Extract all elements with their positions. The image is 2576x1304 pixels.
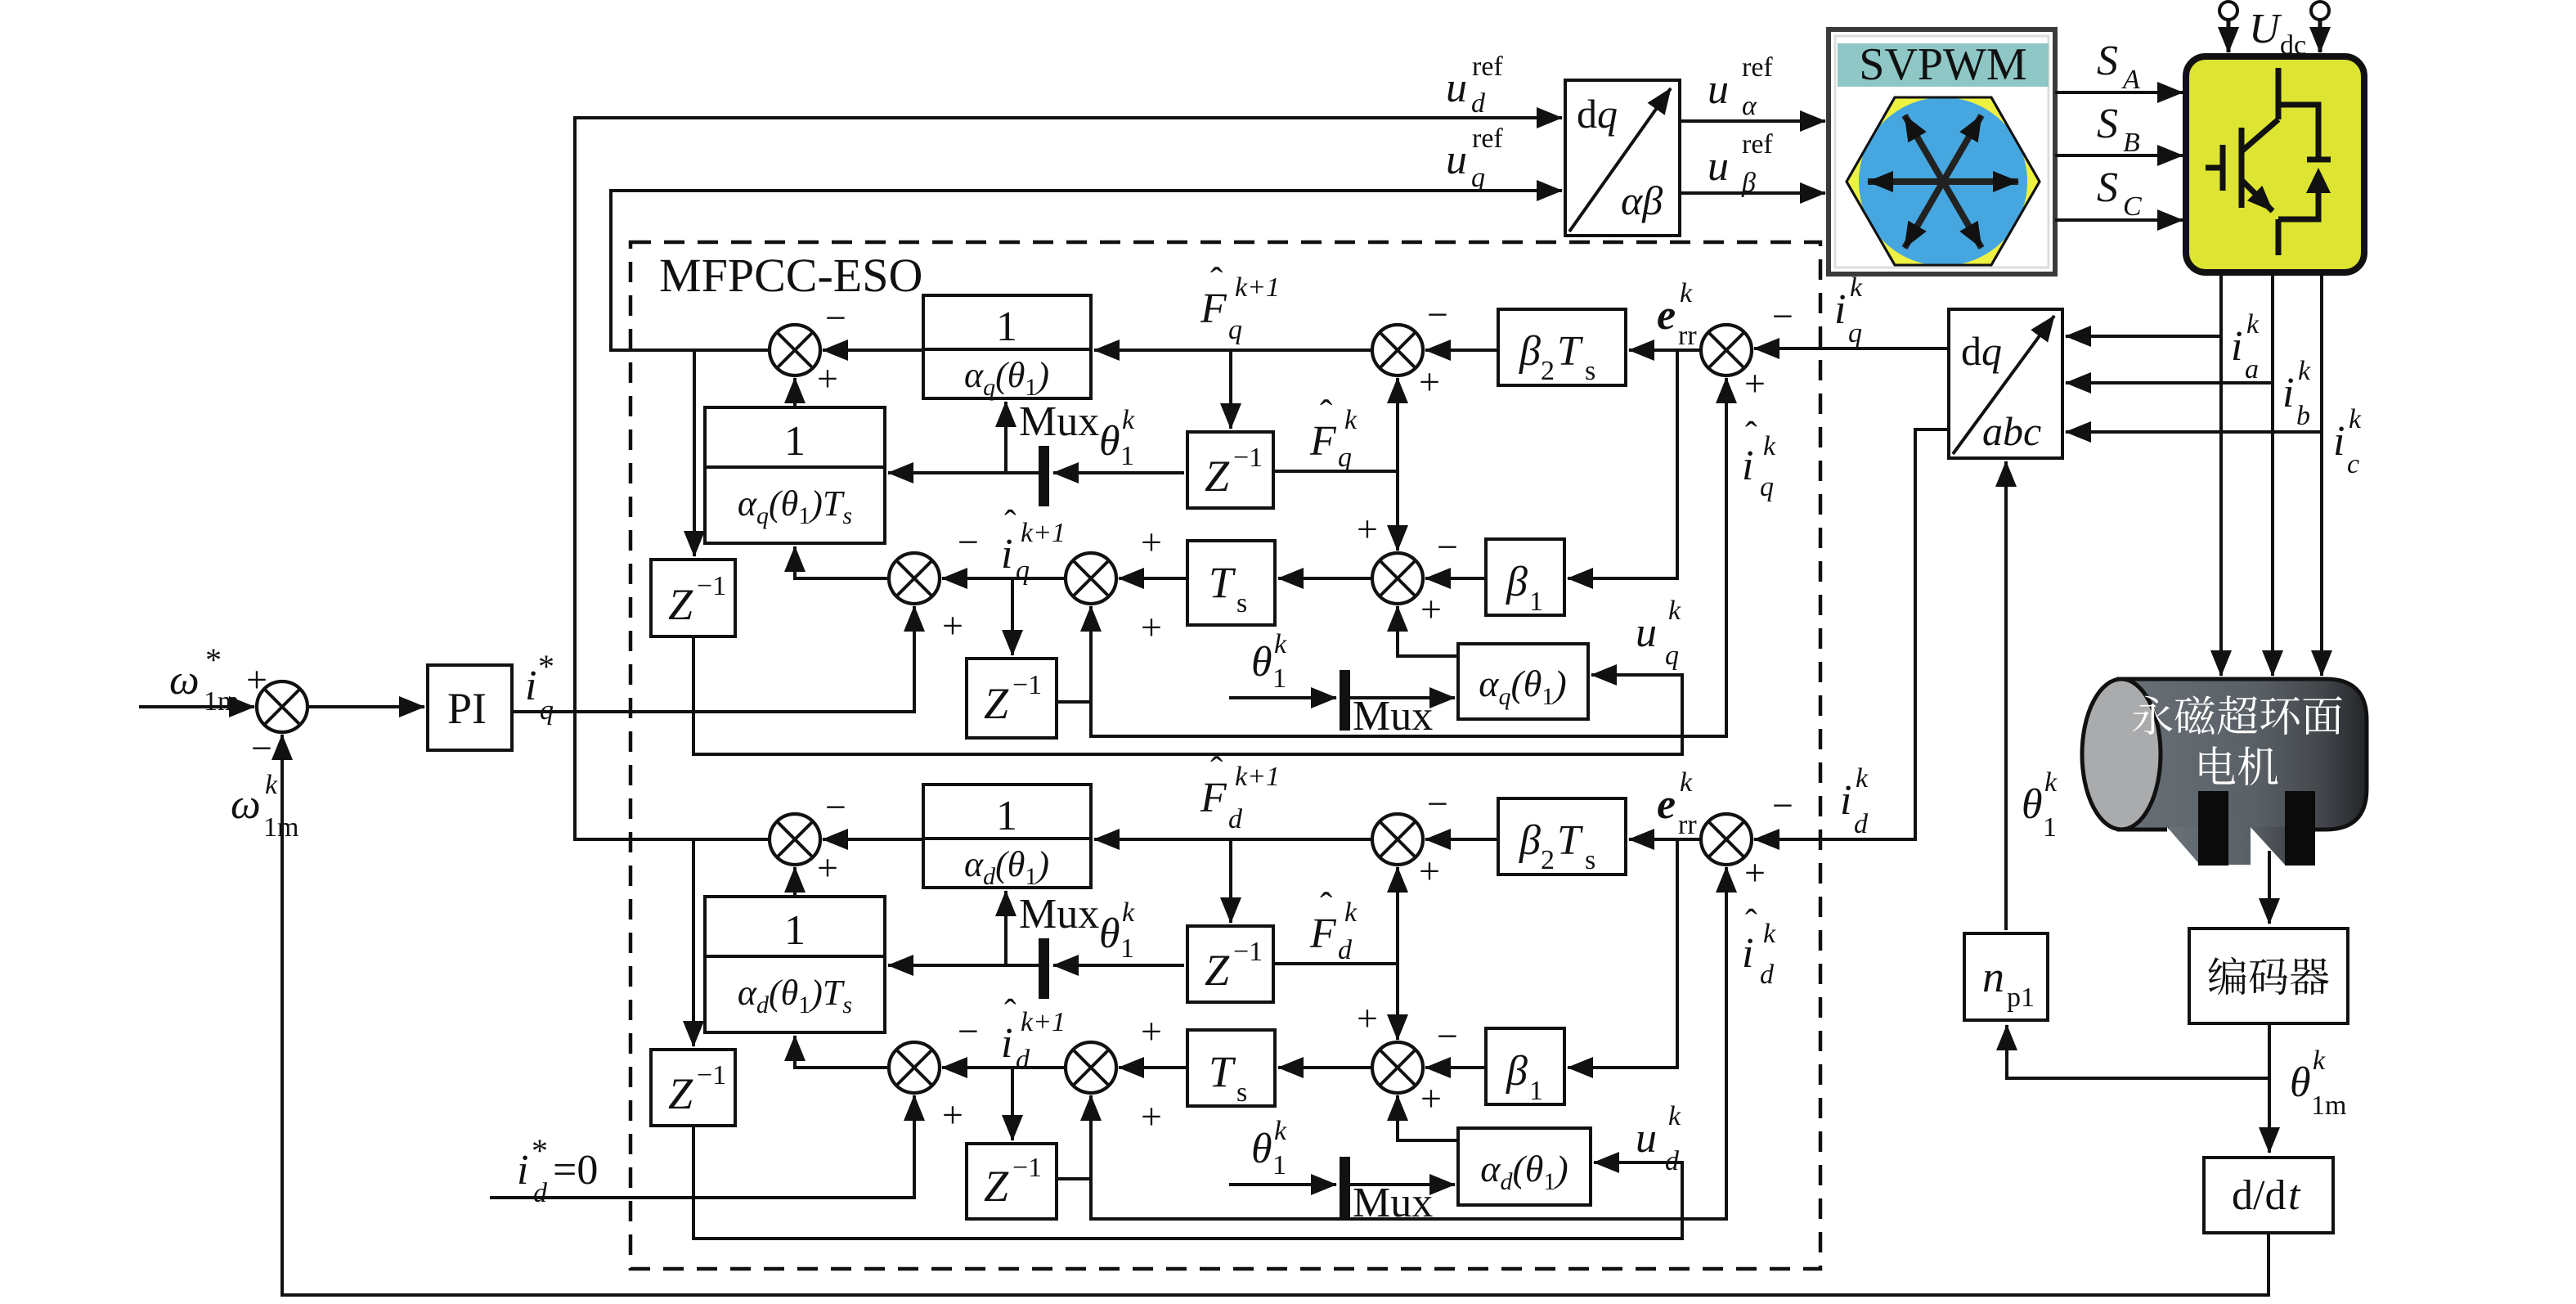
- svg-text:k: k: [2298, 356, 2311, 386]
- svg-text:+: +: [942, 1094, 963, 1135]
- svg-text:u: u: [1446, 65, 1467, 111]
- svg-text:αd(θ1): αd(θ1): [964, 844, 1049, 890]
- label encoder chinese: [2208, 957, 2328, 996]
- wire u_alpha ref: [1680, 119, 1825, 123]
- svg-text:b: b: [2296, 401, 2310, 431]
- wire i_c sense: [2066, 430, 2322, 434]
- wire iq* from PI to S5 bottom: [512, 606, 914, 712]
- label iq hat k right: [1742, 415, 1776, 502]
- svg-text:i: i: [517, 1147, 528, 1194]
- label omega^k_1m: [231, 770, 298, 843]
- svg-text:−: −: [1772, 785, 1793, 826]
- svg-text:2: 2: [1541, 845, 1555, 875]
- svg-text:−1: −1: [697, 1060, 726, 1090]
- block encoder: [2189, 929, 2348, 1023]
- svg-text:k: k: [1850, 272, 1863, 303]
- svg-text:−: −: [1772, 295, 1793, 337]
- svg-text:T: T: [1557, 328, 1583, 375]
- svg-text:rr: rr: [1678, 321, 1697, 351]
- label i_c^k: [2333, 404, 2362, 479]
- label e_rr^k d: [1657, 767, 1697, 840]
- label i_q^k top: [1834, 272, 1863, 348]
- label u_d^k: [1636, 1101, 1681, 1176]
- svg-text:n: n: [1982, 952, 2004, 1001]
- wire mux q upper branch up to 1/alpha_q: [1004, 402, 1008, 473]
- svg-text:θ: θ: [1099, 418, 1120, 465]
- svg-text:+: +: [1419, 850, 1440, 892]
- svg-text:Mux: Mux: [1353, 693, 1433, 740]
- svg-text:k: k: [1856, 763, 1869, 794]
- svg-text:i: i: [1001, 1020, 1012, 1067]
- svg-text:ref: ref: [1472, 52, 1503, 82]
- label i_b^k: [2282, 356, 2311, 431]
- block alpha_d(theta1): [1458, 1128, 1591, 1205]
- wire vertical down into S3 q top: [1396, 471, 1399, 551]
- label Mux q upper: [1019, 398, 1099, 445]
- sum junction S3 d: [1372, 1042, 1423, 1093]
- svg-text:F: F: [1200, 286, 1227, 332]
- sum junction S6 d: [770, 814, 820, 865]
- svg-text:A: A: [2121, 65, 2140, 95]
- svg-text:i: i: [2231, 323, 2242, 370]
- SVPWM title banner: [1838, 43, 2049, 87]
- svg-text:s: s: [1236, 588, 1247, 618]
- block Ts d: [1187, 1030, 1275, 1106]
- svg-text:PI: PI: [447, 684, 487, 733]
- label motor chinese line2: [2200, 746, 2278, 785]
- svg-text:1: 1: [1120, 441, 1134, 471]
- svg-text:αβ: αβ: [1621, 178, 1663, 223]
- svg-text:k: k: [2044, 767, 2058, 798]
- svg-text:S: S: [2097, 164, 2118, 211]
- svg-text:k: k: [1763, 431, 1776, 461]
- svg-text:k: k: [1680, 278, 1693, 308]
- label Z-1 d bottom text: [984, 1153, 1042, 1211]
- SVPWM module frame: [1829, 29, 2055, 274]
- svg-text:ref: ref: [1742, 52, 1773, 83]
- SVPWM blue circle: [1859, 97, 2027, 266]
- label i_d^k: [1840, 763, 1869, 839]
- svg-text:e: e: [1657, 781, 1676, 828]
- svg-text:c: c: [2347, 449, 2359, 479]
- svg-text:αq(θ1)Ts: αq(θ1)Ts: [738, 483, 852, 529]
- wire S5 d out to alphaTs d bottom: [795, 1036, 890, 1068]
- wire mux d upper branch up to 1/alpha_d: [1004, 891, 1008, 965]
- label d/dt text: [2232, 1172, 2301, 1219]
- label i_d*=0: [517, 1132, 598, 1208]
- svg-text:−1: −1: [1012, 670, 1042, 700]
- block Ts q: [1187, 541, 1275, 625]
- svg-text:−: −: [1437, 526, 1458, 568]
- wire theta1 into mux q upper: [1053, 471, 1184, 474]
- wire phase a to motor: [2219, 272, 2223, 676]
- svg-text:k: k: [2313, 1045, 2326, 1076]
- svg-text:MFPCC-ESO: MFPCC-ESO: [659, 249, 922, 302]
- svg-text:s: s: [1585, 845, 1595, 875]
- wire ud ref feedback: [575, 118, 1562, 839]
- svg-text:i: i: [1834, 286, 1846, 333]
- svg-text:β: β: [1506, 1048, 1528, 1095]
- svg-text:*: *: [532, 1132, 548, 1169]
- svg-text:k: k: [1122, 897, 1135, 928]
- block beta1 d: [1486, 1028, 1564, 1104]
- motor body cylinder: [2082, 679, 2367, 865]
- svg-text:+: +: [1141, 1010, 1162, 1052]
- svg-text:αd(θ1)Ts: αd(θ1)Ts: [738, 973, 852, 1018]
- svg-text:q: q: [1760, 472, 1774, 502]
- label S_A: [2097, 38, 2140, 95]
- svg-text:+: +: [1141, 1095, 1162, 1137]
- svg-text:θ: θ: [1251, 639, 1272, 686]
- label u_beta ref: [1708, 129, 1773, 198]
- wire alpha_qTs out up to S6 bottom: [793, 378, 797, 407]
- svg-text:Mux: Mux: [1019, 891, 1099, 938]
- block Z-1 d mid: [1187, 926, 1273, 1002]
- svg-text:k: k: [265, 770, 278, 800]
- wire u_beta ref: [1680, 191, 1825, 195]
- svg-text:k: k: [1122, 405, 1135, 435]
- svg-text:ω: ω: [231, 781, 261, 828]
- svg-text:k: k: [1274, 629, 1287, 659]
- svg-text:+: +: [1357, 508, 1378, 550]
- wire err d to beta2Ts: [1629, 838, 1699, 841]
- label iq hat k+1: [1001, 503, 1066, 586]
- svg-text:+: +: [1141, 606, 1162, 648]
- svg-text:d: d: [533, 1178, 548, 1208]
- svg-text:k: k: [1344, 897, 1358, 928]
- block beta2Ts d: [1498, 798, 1626, 875]
- mux q lower bar: [1340, 670, 1350, 731]
- label S_C: [2097, 164, 2142, 222]
- svg-text:i: i: [1742, 930, 1753, 977]
- wire S4 q out to S5: [942, 577, 1066, 580]
- svg-text:k+1: k+1: [1235, 272, 1280, 303]
- wire theta1 into mux d upper: [1053, 964, 1184, 967]
- svg-text:−: −: [1437, 1015, 1458, 1057]
- label beta1 d text: [1506, 1048, 1543, 1106]
- svg-text:−1: −1: [1012, 1153, 1042, 1183]
- svg-text:d: d: [1471, 88, 1486, 119]
- wire omega ref input: [139, 705, 254, 708]
- label theta1^k right: [2022, 767, 2058, 843]
- svg-text:+: +: [1744, 362, 1766, 404]
- label beta1 q text: [1506, 559, 1543, 617]
- wire u_d^k from Z-1 left to alpha_d: [693, 1126, 1682, 1239]
- svg-text:u: u: [1636, 609, 1657, 656]
- svg-text:i: i: [1840, 777, 1851, 824]
- label theta1^k q lower: [1251, 629, 1287, 694]
- sum junction S1 d: [1701, 814, 1752, 865]
- svg-text:θ: θ: [1099, 911, 1120, 957]
- wire S_A gate signal: [2055, 91, 2183, 94]
- svg-text:Z: Z: [984, 1162, 1009, 1211]
- block Z-1 q bottom: [967, 659, 1057, 738]
- wire vertical down into S3 d top: [1396, 964, 1399, 1040]
- label theta1^k q upper: [1099, 405, 1135, 471]
- wire vertical up into S2 q bottom: [1396, 378, 1399, 471]
- wire S3 q out to Ts: [1278, 577, 1372, 580]
- block dq/abc transform: [1949, 309, 2062, 458]
- sum junction S5 q: [889, 553, 940, 604]
- sum junction S6 q: [770, 325, 820, 375]
- svg-text:dq: dq: [1577, 91, 1618, 137]
- label Mux q lower: [1353, 693, 1433, 740]
- block Z-1 q left: [651, 560, 735, 636]
- wire Z-1 d bottom out junction: [1057, 1177, 1091, 1180]
- wire vertical up into S2 d bottom: [1396, 867, 1399, 964]
- label Fq hat k+1: [1200, 259, 1280, 345]
- block 1/alpha_q(theta1)Ts fraction: [705, 407, 885, 543]
- svg-text:1: 1: [1529, 587, 1543, 617]
- svg-text:i: i: [1001, 531, 1012, 578]
- svg-text:k: k: [1344, 405, 1358, 435]
- wire alpha_q out to S3 bottom: [1398, 606, 1458, 656]
- svg-text:1: 1: [1272, 1150, 1286, 1180]
- block 1/alpha_d(theta1)Ts fraction: [705, 897, 885, 1032]
- sum junction S2 d: [1372, 814, 1423, 865]
- svg-text:α: α: [1742, 91, 1757, 121]
- label beta2Ts d text: [1519, 817, 1595, 875]
- wire Z-1 q mid out to vertical: [1273, 470, 1398, 473]
- svg-text:αq(θ1): αq(θ1): [964, 355, 1049, 401]
- svg-text:d: d: [1854, 809, 1869, 839]
- svg-text:ref: ref: [1742, 129, 1773, 160]
- svg-text:u: u: [1708, 66, 1729, 113]
- label Z-1 q bottom text: [984, 670, 1042, 728]
- wire theta branch to n_p1: [2007, 1025, 2269, 1078]
- Udc terminal right: [2311, 2, 2329, 52]
- label u_q ref: [1446, 124, 1503, 193]
- svg-text:B: B: [2123, 128, 2140, 158]
- svg-text:β: β: [1519, 817, 1541, 864]
- svg-text:T: T: [1209, 558, 1236, 607]
- inverter diode triangle: [2306, 168, 2331, 193]
- wire Z-1 d mid out to vertical: [1273, 962, 1398, 965]
- label u_q^k: [1636, 596, 1681, 671]
- wire mux q upper out to alphaTs box: [888, 471, 1039, 474]
- wire Ts q out to S4: [1119, 577, 1187, 580]
- svg-text:−: −: [958, 521, 979, 563]
- svg-text:i: i: [2282, 370, 2294, 416]
- wire left Z-1 q input branch: [693, 350, 696, 556]
- SVPWM vector arrows: [1868, 115, 2018, 248]
- wire alpha_dTs out up to S6 d bottom: [793, 867, 797, 897]
- wire Ts d out to S4 d: [1119, 1066, 1187, 1069]
- wire iq hat up into S4 bottom: [1089, 606, 1093, 702]
- svg-text:k+1: k+1: [1235, 762, 1280, 792]
- wire beta1 d out to S3 d: [1425, 1066, 1486, 1069]
- svg-text:F: F: [1309, 911, 1337, 957]
- svg-text:+: +: [1744, 852, 1766, 893]
- sum junction S4 q: [1066, 553, 1116, 604]
- label Fd hat k: [1309, 884, 1358, 965]
- label id hat k right: [1742, 902, 1776, 990]
- svg-text:+: +: [942, 605, 963, 646]
- block 1/alpha_q(theta1) fraction: [923, 295, 1091, 401]
- sum junction S1 q: [1701, 325, 1752, 375]
- svg-text:1: 1: [784, 907, 806, 954]
- wire err q to beta2Ts: [1629, 348, 1699, 352]
- svg-text:+: +: [1420, 1077, 1442, 1119]
- block Z-1 q mid: [1187, 432, 1273, 508]
- label PI text: [447, 684, 487, 733]
- svg-text:rr: rr: [1678, 810, 1697, 840]
- svg-text:u: u: [1636, 1115, 1657, 1162]
- svg-text:αd(θ1): αd(θ1): [1480, 1148, 1568, 1195]
- wire alpha_d out to S3 d bottom: [1398, 1095, 1458, 1140]
- svg-text:1m: 1m: [204, 686, 239, 717]
- label n_p1 text: [1982, 952, 2035, 1013]
- block beta1 q: [1486, 539, 1564, 615]
- svg-text:p1: p1: [2007, 982, 2035, 1013]
- wire S3 d out to Ts d: [1278, 1066, 1372, 1069]
- block Z-1 d left: [651, 1050, 735, 1126]
- svg-text:2: 2: [1541, 356, 1555, 386]
- svg-text:a: a: [2245, 354, 2259, 384]
- block PI: [428, 665, 512, 750]
- svg-text:q: q: [1016, 555, 1030, 586]
- svg-text:1m: 1m: [2311, 1090, 2346, 1121]
- svg-text:Z: Z: [668, 1069, 693, 1118]
- svg-text:u: u: [1708, 143, 1729, 190]
- block n_p1: [1964, 933, 2048, 1020]
- wire iq hat k line to S1 bottom: [1091, 378, 1726, 736]
- label Z-1 d mid text: [1205, 937, 1263, 995]
- label motor chinese line1: [2133, 695, 2342, 735]
- svg-text:β: β: [1519, 328, 1541, 375]
- wire beta1 q out to S3: [1425, 577, 1486, 580]
- mux q upper bar: [1039, 446, 1049, 506]
- label S_B: [2097, 101, 2140, 158]
- svg-text:ref: ref: [1472, 124, 1503, 154]
- wire mux d upper out to alphaTs box: [888, 964, 1039, 967]
- label Mux d lower: [1353, 1180, 1433, 1226]
- svg-text:q: q: [1228, 315, 1242, 345]
- label id hat k+1: [1001, 992, 1066, 1075]
- wire 1/alpha_d out to S6 d: [823, 838, 923, 841]
- block d/dt: [2204, 1158, 2333, 1233]
- label theta1^k d upper: [1099, 897, 1135, 964]
- svg-text:1: 1: [1120, 933, 1134, 964]
- svg-text:d: d: [1016, 1045, 1030, 1075]
- mux d lower bar: [1340, 1157, 1350, 1217]
- block Z-1 d bottom: [967, 1144, 1057, 1219]
- svg-text:1: 1: [996, 793, 1017, 839]
- wire theta1 into mux q lower: [1229, 696, 1336, 699]
- svg-text:+: +: [817, 847, 838, 888]
- label u_alpha ref: [1708, 52, 1773, 121]
- wire id k+1 branch down to Z-1 d: [1011, 1068, 1014, 1140]
- label Z-1 q mid text: [1205, 443, 1263, 501]
- sum junction S5 d: [889, 1042, 940, 1093]
- SVPWM hexagon with yellow corners: [1847, 97, 2040, 265]
- wire uq ref feedback: [611, 191, 1562, 350]
- svg-text:dc: dc: [2280, 30, 2306, 61]
- block beta2Ts q: [1498, 309, 1626, 385]
- svg-text:Z: Z: [668, 580, 693, 629]
- label Ts d text: [1209, 1047, 1247, 1108]
- inverter IGBT symbol: [2206, 68, 2331, 255]
- sum junction S4 d: [1066, 1042, 1116, 1093]
- svg-text:1: 1: [1529, 1076, 1543, 1106]
- svg-text:k: k: [1668, 596, 1681, 626]
- svg-text:1: 1: [1272, 663, 1286, 694]
- svg-text:+: +: [1357, 997, 1378, 1039]
- svg-text:k: k: [2349, 404, 2362, 434]
- svg-text:1: 1: [2043, 812, 2057, 843]
- wire Fd branch down to Z-1: [1229, 839, 1232, 923]
- svg-text:+: +: [817, 357, 838, 399]
- svg-text:−1: −1: [1233, 937, 1263, 967]
- label Mux d upper: [1019, 891, 1099, 938]
- wire u_q^k from Z-1 left to alpha_q: [693, 636, 1682, 754]
- label theta_1m^k: [2290, 1045, 2346, 1121]
- svg-text:−: −: [825, 297, 846, 339]
- wire iq k from dq/abc to S1: [1754, 347, 1949, 350]
- svg-text:−: −: [1427, 783, 1448, 825]
- block alpha_q(theta1) q: [1458, 644, 1588, 719]
- svg-text:Z: Z: [984, 679, 1009, 728]
- label u_d ref: [1446, 52, 1503, 119]
- svg-text:−1: −1: [697, 571, 726, 601]
- svg-text:e: e: [1657, 292, 1676, 339]
- svg-text:C: C: [2123, 191, 2142, 222]
- svg-text:+: +: [1420, 588, 1442, 630]
- label Ts q text: [1209, 558, 1247, 618]
- label beta2Ts q text: [1519, 328, 1595, 386]
- svg-text:q: q: [1471, 163, 1485, 193]
- svg-text:s: s: [1236, 1077, 1247, 1108]
- svg-text:−: −: [958, 1010, 979, 1052]
- svg-text:β: β: [1741, 168, 1756, 198]
- block dq/alphabeta transform: [1565, 80, 1680, 236]
- wire theta1 into mux d lower: [1229, 1183, 1336, 1186]
- svg-text:d: d: [1338, 935, 1353, 965]
- svg-text:*: *: [538, 648, 554, 685]
- label theta1^k d lower: [1251, 1116, 1287, 1180]
- wire speed sum to PI: [309, 705, 424, 708]
- wire S4 d out to S5 d: [942, 1066, 1066, 1069]
- svg-text:k: k: [1763, 919, 1776, 949]
- wire err d branch down to beta1 d: [1568, 839, 1677, 1068]
- wire mux d lower out to alpha_d: [1350, 1183, 1455, 1186]
- wire S2 q out to 1/alpha_q: [1094, 348, 1372, 352]
- svg-text:1: 1: [996, 304, 1017, 350]
- svg-text:i: i: [1742, 443, 1753, 489]
- svg-text:dq: dq: [1961, 328, 2002, 374]
- wire S2 d out to 1/alpha_d: [1094, 838, 1372, 841]
- wire S5 q out to alphaTs bottom: [795, 546, 890, 578]
- label Fq hat k: [1309, 392, 1358, 473]
- svg-text:+: +: [1419, 361, 1440, 402]
- wire phase b to motor: [2271, 272, 2274, 676]
- svg-text:β: β: [1506, 559, 1528, 605]
- label Fd hat k+1: [1200, 749, 1280, 834]
- sum junction speed error: [257, 681, 307, 732]
- MFPCC-ESO dashed boundary box: [631, 242, 1820, 1269]
- svg-text:q: q: [1338, 443, 1352, 473]
- block 1/alpha_d(theta1) fraction: [923, 785, 1091, 890]
- wire encoder to d/dt: [2268, 1023, 2271, 1153]
- svg-text:θ: θ: [2022, 781, 2043, 828]
- svg-text:Z: Z: [1205, 946, 1230, 995]
- sum junction S3 q: [1372, 553, 1423, 604]
- wire Z-1 q bottom out junction: [1057, 700, 1091, 704]
- svg-text:q: q: [1848, 318, 1862, 348]
- wire S_C gate signal: [2055, 218, 2183, 222]
- svg-text:αq(θ1): αq(θ1): [1479, 663, 1566, 710]
- wire left Z-1 d input branch: [692, 839, 695, 1046]
